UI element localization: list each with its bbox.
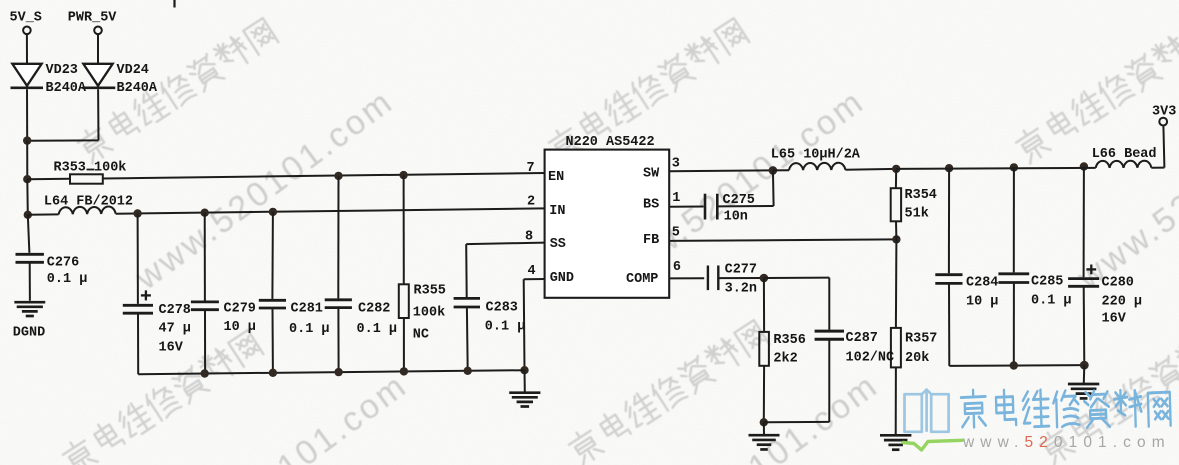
capacitor C284 (935, 273, 962, 276)
logo text 家电维修资料网 (stylized) (961, 390, 987, 428)
svg-text:L64 FB/2012: L64 FB/2012 (44, 195, 133, 210)
svg-text:8: 8 (525, 229, 533, 244)
wire (137, 214, 139, 304)
svg-text:R356: R356 (773, 333, 805, 348)
svg-text:C279: C279 (224, 302, 256, 317)
svg-text:102/NC: 102/NC (846, 350, 895, 365)
wire (896, 168, 1095, 169)
svg-text:3.2n: 3.2n (725, 281, 757, 296)
svg-text:6: 6 (673, 260, 681, 275)
svg-text:IN: IN (549, 204, 565, 219)
node EN junction (23, 175, 31, 183)
wire (895, 367, 897, 434)
node (1080, 162, 1088, 170)
diode VD24 (83, 64, 112, 86)
node (1010, 361, 1018, 369)
wire (895, 169, 897, 188)
resistor R355 (399, 284, 409, 318)
svg-text:FB: FB (643, 233, 659, 248)
node (1010, 163, 1018, 171)
svg-text:R355: R355 (414, 284, 446, 299)
wire (1083, 365, 1086, 383)
wire (204, 213, 206, 301)
capacitor C282 (325, 298, 352, 301)
svg-text:BS: BS (643, 197, 659, 212)
capacitor C275 (704, 194, 707, 220)
svg-text:16V: 16V (1102, 312, 1127, 327)
svg-text:51k: 51k (905, 207, 929, 222)
node (399, 171, 407, 179)
wire (403, 318, 405, 371)
wire (26, 89, 28, 140)
ground (880, 434, 911, 437)
wire (764, 277, 829, 279)
svg-text:C280: C280 (1102, 276, 1134, 291)
wire (97, 34, 99, 63)
wire (173, 0, 175, 8)
ground DGND (14, 301, 45, 304)
wire (29, 264, 31, 301)
terminal 5V_S (23, 27, 31, 35)
svg-text:20k: 20k (905, 351, 929, 366)
wire BS (669, 206, 703, 208)
wire (272, 309, 274, 373)
inductor L65 (789, 163, 845, 170)
wire (1163, 125, 1164, 167)
svg-text:N220 AS5422: N220 AS5422 (566, 135, 655, 150)
wire (763, 366, 765, 423)
wire (773, 169, 789, 171)
ground (749, 434, 780, 437)
svg-text:L66 Bead: L66 Bead (1092, 147, 1157, 162)
svg-text:C278: C278 (159, 303, 191, 318)
svg-text:B240A: B240A (117, 81, 158, 96)
wire (337, 176, 339, 299)
wire (1013, 284, 1015, 366)
svg-text:GND: GND (550, 271, 574, 286)
wire SW (669, 169, 773, 172)
svg-text:5: 5 (672, 225, 680, 240)
wire (27, 139, 98, 141)
svg-text:16V: 16V (159, 341, 184, 356)
wire (26, 34, 28, 63)
svg-text:VD24: VD24 (117, 63, 149, 78)
wire (26, 141, 28, 180)
wire (524, 278, 545, 280)
svg-text:VD23: VD23 (46, 63, 78, 78)
wire (772, 170, 775, 206)
wire (1013, 167, 1015, 272)
wire (1083, 167, 1085, 278)
svg-text:3: 3 (672, 157, 680, 172)
terminal 3V3 (1159, 118, 1167, 126)
resistor R354 (891, 188, 901, 221)
wire (1083, 287, 1086, 365)
capacitor C285 (998, 272, 1029, 275)
wire SS net (466, 243, 545, 245)
svg-text:www.520101.com: www.520101.com (962, 434, 1171, 451)
wire (720, 277, 764, 279)
wire (466, 308, 469, 371)
wire COMP (669, 277, 704, 279)
svg-text:0.1 μ: 0.1 μ (47, 272, 88, 287)
svg-text:C285: C285 (1031, 275, 1063, 290)
node (201, 209, 209, 217)
wire (26, 179, 29, 215)
svg-text:2k2: 2k2 (773, 352, 797, 367)
svg-text:EN: EN (548, 170, 564, 185)
svg-text:0.1 μ: 0.1 μ (1031, 294, 1072, 309)
op-amp U1 N220 AS5422 (545, 150, 670, 298)
svg-text:100k: 100k (413, 306, 445, 321)
node (269, 208, 277, 216)
ground (509, 391, 540, 394)
wire (27, 178, 70, 181)
svg-text:2: 2 (527, 195, 535, 210)
inductor L66 (1096, 161, 1152, 168)
wire (1151, 167, 1164, 169)
capacitor C276 (16, 253, 44, 256)
capacitor C277 (707, 266, 709, 291)
svg-text:220 μ: 220 μ (1102, 295, 1143, 310)
svg-text:R353 100k: R353 100k (54, 160, 127, 175)
svg-text:7: 7 (527, 161, 535, 176)
wire (895, 239, 898, 328)
svg-text:COMP: COMP (626, 272, 658, 287)
node (520, 366, 528, 374)
capacitor C281 (259, 299, 286, 302)
svg-text:0.1 μ: 0.1 μ (357, 322, 398, 337)
wire (764, 421, 830, 423)
wire (763, 422, 765, 434)
diode VD23 (12, 64, 41, 86)
logo green swoosh (903, 440, 962, 450)
svg-text:0.1 μ: 0.1 μ (485, 320, 526, 335)
svg-text:DGND: DGND (13, 326, 45, 341)
wire (828, 340, 830, 422)
capacitor C283 (454, 297, 480, 300)
resistor R356 (759, 332, 769, 366)
wire EN net (103, 173, 545, 179)
svg-text:L65 10μH/2A: L65 10μH/2A (771, 148, 861, 163)
wire (97, 89, 99, 140)
capacitor C287 (815, 330, 844, 333)
wire ground rail (138, 370, 524, 374)
node (464, 367, 472, 375)
wire (895, 221, 897, 239)
svg-text:10 μ: 10 μ (966, 295, 998, 310)
wire (204, 311, 206, 374)
svg-text:1: 1 (672, 191, 680, 206)
svg-text:3V3: 3V3 (1152, 105, 1176, 120)
svg-text:NC: NC (413, 328, 429, 343)
svg-text:C284: C284 (966, 276, 998, 291)
svg-text:4: 4 (528, 264, 536, 279)
svg-text:47 μ: 47 μ (159, 322, 191, 337)
wire (403, 175, 405, 284)
node (892, 165, 900, 173)
wire IN net (116, 208, 545, 213)
wire output gnd rail (949, 364, 1084, 367)
svg-text:C277: C277 (725, 263, 757, 278)
capacitor C279 (191, 300, 219, 303)
capacitor C278 (141, 294, 151, 296)
svg-text:C281: C281 (291, 302, 323, 317)
wire (137, 314, 139, 374)
node (334, 172, 342, 180)
wire (28, 215, 30, 253)
node (760, 418, 768, 426)
svg-text:10 μ: 10 μ (224, 320, 256, 335)
wire (948, 168, 950, 273)
inductor L64 (59, 206, 116, 214)
node (945, 164, 953, 172)
svg-text:R354: R354 (905, 188, 937, 203)
node (892, 235, 900, 243)
logo book icon (905, 390, 949, 432)
wire (718, 205, 773, 207)
node (769, 166, 778, 175)
wire (271, 212, 274, 299)
wire (465, 244, 468, 297)
node (1080, 361, 1089, 370)
svg-text:5V_S: 5V_S (10, 11, 42, 26)
resistor R353 (70, 174, 103, 183)
wire (763, 278, 765, 332)
node IN junction (24, 211, 32, 219)
svg-text:C287: C287 (846, 331, 878, 346)
wire (845, 168, 896, 171)
resistor R357 (891, 328, 901, 368)
svg-text:C283: C283 (486, 301, 518, 316)
svg-text:C282: C282 (358, 302, 390, 317)
node (760, 274, 769, 283)
svg-text:C276: C276 (47, 256, 79, 271)
svg-text:R357: R357 (905, 332, 937, 347)
terminal PWR_5V (94, 27, 102, 35)
svg-text:10n: 10n (724, 209, 748, 224)
node (133, 209, 141, 217)
node (269, 369, 277, 377)
capacitor C280 (1086, 268, 1096, 270)
svg-text:0.1 μ: 0.1 μ (289, 322, 330, 337)
svg-text:B240A: B240A (46, 81, 87, 96)
wire (524, 370, 526, 391)
wire (828, 278, 830, 330)
node (201, 369, 209, 377)
svg-text:SS: SS (550, 237, 566, 252)
node 5V junction (23, 136, 31, 144)
wire (948, 285, 950, 366)
svg-text:PWR_5V: PWR_5V (68, 11, 118, 26)
wire (337, 309, 339, 372)
svg-text:SW: SW (643, 166, 660, 181)
wire (28, 213, 59, 215)
node (400, 367, 408, 375)
wire (523, 279, 526, 370)
wire FB (669, 239, 896, 241)
ground (1068, 383, 1099, 386)
node (334, 368, 342, 376)
